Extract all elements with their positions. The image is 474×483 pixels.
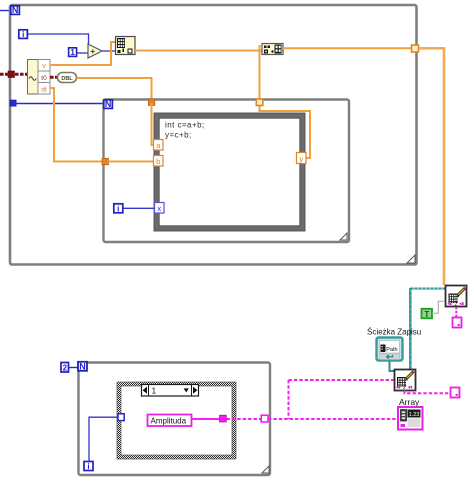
wire path control to write node 2 bbox=[390, 361, 395, 372]
wire write1 to string indicator bbox=[455, 307, 457, 317]
write to spreadsheet node 1 bbox=[446, 286, 467, 307]
svg-text:i: i bbox=[22, 30, 24, 39]
formula tunnel x bbox=[155, 203, 165, 214]
iteration terminal i (outer loop) bbox=[19, 30, 28, 39]
tunnel y output (inner loop top) bbox=[256, 99, 263, 106]
wire Y output bbox=[50, 42, 115, 65]
svg-text:2: 2 bbox=[63, 364, 68, 373]
svg-text:i: i bbox=[87, 462, 89, 471]
wire build array to edge tunnel bbox=[283, 47, 412, 49]
wire i to sequence bbox=[89, 417, 118, 461]
wire path to write node 1 bbox=[410, 287, 445, 369]
svg-text:1: 1 bbox=[70, 48, 75, 57]
wire Amplituda to sequence tunnel bbox=[192, 418, 220, 420]
svg-text:Amplituda: Amplituda bbox=[151, 417, 187, 426]
formula node bbox=[154, 113, 305, 231]
svg-text:x: x bbox=[157, 204, 161, 213]
wire tunnel a to formula bbox=[152, 103, 155, 145]
wire array node to build array bbox=[135, 50, 262, 52]
svg-text:1.23: 1.23 bbox=[409, 412, 420, 418]
inner for loop bbox=[104, 100, 350, 243]
wire string to write node 2 and array bbox=[268, 380, 397, 419]
wire 1 to add bbox=[77, 52, 89, 54]
path control bbox=[377, 338, 403, 361]
string indicator 2 bbox=[451, 388, 460, 398]
count terminal N (bottom loop) bbox=[78, 362, 87, 372]
svg-text:2: 2 bbox=[403, 385, 406, 390]
svg-text:+: + bbox=[90, 46, 95, 56]
wire formula y up to build array bbox=[260, 45, 311, 158]
wire i to add bbox=[28, 34, 89, 47]
svg-text:DBL: DBL bbox=[61, 76, 73, 82]
svg-text:i: i bbox=[117, 204, 119, 213]
svg-text:t0: t0 bbox=[41, 75, 47, 82]
formula tunnel a bbox=[154, 140, 164, 151]
tunnel N to inner loop bbox=[10, 100, 16, 106]
svg-text:2: 2 bbox=[454, 301, 457, 306]
svg-text:N: N bbox=[105, 99, 112, 109]
tunnel waveform input bbox=[8, 71, 15, 78]
wire DBL to tunnel a bbox=[77, 78, 152, 100]
array indicator bbox=[398, 407, 423, 430]
svg-text:y=c+b;: y=c+b; bbox=[165, 131, 192, 140]
wire dt to inner loop bbox=[50, 88, 102, 162]
tunnel string (bottom loop right) bbox=[261, 415, 268, 422]
array node (index/replace) bbox=[116, 37, 136, 55]
conversion bullet DBL bbox=[58, 73, 77, 83]
svg-text:Array: Array bbox=[399, 397, 420, 407]
waveform components node bbox=[28, 60, 51, 95]
bottom for loop bbox=[79, 363, 271, 476]
wire t0 to DBL bbox=[50, 76, 58, 79]
constant 1 bbox=[69, 48, 77, 57]
tunnel a input (inner loop top) bbox=[148, 99, 155, 106]
count terminal N (outer loop) bbox=[11, 5, 20, 15]
control Amplituda bbox=[148, 415, 192, 427]
constant 2 bbox=[61, 363, 69, 373]
count terminal N (inner loop) bbox=[104, 99, 113, 109]
svg-text:T: T bbox=[424, 310, 429, 319]
wire tunnel b to formula bbox=[108, 161, 154, 163]
wire sequence to loop tunnel bbox=[227, 418, 263, 420]
stacked sequence structure bbox=[117, 382, 236, 459]
wire add to array node bbox=[102, 50, 115, 52]
build array node bbox=[262, 44, 283, 55]
iteration terminal i (bottom loop) bbox=[84, 462, 93, 472]
sequence selector bbox=[142, 385, 199, 397]
wire i to formula x bbox=[124, 207, 156, 209]
svg-text:1: 1 bbox=[152, 385, 157, 395]
add function bbox=[88, 44, 102, 58]
wire 2 to N bbox=[69, 367, 79, 369]
tunnel output (outer loop right) bbox=[412, 45, 419, 52]
svg-text:Ścieżka Zapisu: Ścieżka Zapisu bbox=[367, 328, 421, 337]
wire to write node 1 bbox=[419, 48, 445, 285]
outer for loop bbox=[10, 5, 417, 265]
svg-text:dt: dt bbox=[41, 87, 47, 94]
svg-text:Y: Y bbox=[42, 64, 47, 71]
svg-text:b: b bbox=[156, 157, 160, 166]
svg-text:y: y bbox=[299, 155, 303, 164]
tunnel b input (inner loop left) bbox=[102, 158, 109, 165]
wire waveform input bbox=[0, 73, 27, 76]
wire N count input bbox=[0, 10, 12, 12]
svg-text:N: N bbox=[79, 362, 86, 372]
wire write2 to string indicator 2 bbox=[405, 391, 451, 394]
iteration terminal i (inner loop) bbox=[114, 204, 123, 214]
svg-text:int c=a+b;: int c=a+b; bbox=[165, 121, 205, 130]
tunnel i (sequence left) bbox=[118, 414, 124, 421]
svg-text:N: N bbox=[12, 5, 19, 15]
string indicator 1 bbox=[453, 318, 462, 328]
formula tunnel b bbox=[154, 156, 164, 167]
wire T to write node 1 bbox=[432, 301, 445, 313]
write to spreadsheet node 2 bbox=[395, 370, 416, 391]
formula tunnel y bbox=[297, 153, 307, 164]
svg-text:Path: Path bbox=[386, 347, 397, 353]
boolean constant T bbox=[422, 309, 433, 319]
tunnel string (sequence right) bbox=[220, 415, 227, 422]
wire to inner loop N bbox=[16, 103, 103, 105]
